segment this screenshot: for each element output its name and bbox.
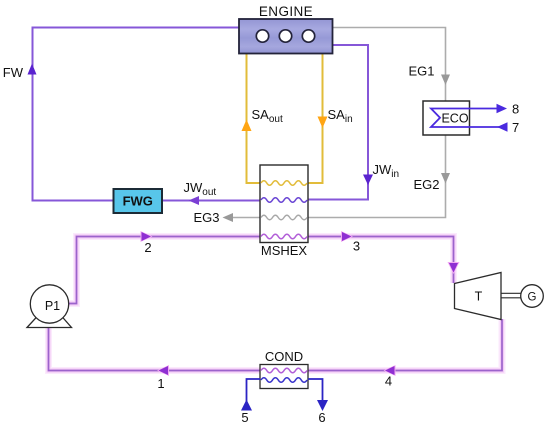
wire FW riser	[33, 28, 240, 202]
arrow SA_in (down)	[318, 117, 328, 129]
wire EG3 MSHEX outlet	[233, 217, 261, 219]
generator G	[521, 285, 544, 308]
arrow node 7 (left)	[497, 122, 508, 131]
wire cycle coil in COND	[261, 368, 307, 373]
wire cooling water outlet 6	[308, 379, 323, 401]
svg-text:T: T	[475, 290, 483, 304]
arrow SA_out (up)	[242, 120, 252, 132]
svg-text:JWout: JWout	[184, 180, 217, 198]
arrow node 1 (left)	[157, 365, 169, 376]
svg-text:SAin: SAin	[328, 107, 353, 125]
wire cycle pump to node 2 to MSHEX	[68, 237, 260, 304]
wire SA coil in MSHEX	[261, 181, 307, 186]
svg-text:COND: COND	[265, 349, 303, 364]
FWG box	[114, 189, 163, 213]
wire SA_out MSHEX to engine	[247, 54, 262, 184]
arrow node 5 (up)	[241, 400, 252, 411]
engine cylinder 3	[302, 30, 314, 42]
svg-text:ECO: ECO	[441, 112, 468, 126]
wire SA_in engine to MSHEX	[308, 54, 323, 184]
arrow node 6 (down)	[317, 400, 328, 411]
svg-text:FW: FW	[3, 65, 24, 80]
arrow node 2 (right)	[141, 231, 153, 242]
svg-text:4: 4	[385, 374, 392, 389]
arrow FW (up)	[28, 64, 37, 75]
svg-text:5: 5	[241, 410, 248, 425]
arrow EG3 (left)	[223, 213, 234, 222]
shaft	[501, 293, 521, 298]
arrow node 8 (right)	[497, 104, 508, 113]
arrow EG2 (down)	[441, 173, 450, 184]
wire ECO sigma with lines 8 and 7	[431, 109, 506, 128]
wire FWG to corner	[32, 200, 114, 202]
svg-text:MSHEX: MSHEX	[261, 243, 308, 258]
arrow EG1 (down)	[441, 75, 450, 86]
pump base	[27, 316, 72, 328]
svg-text:6: 6	[318, 410, 325, 425]
wire cycle COND to node 1 to pump	[49, 327, 261, 371]
wire JW_out MSHEX to FWG	[162, 200, 260, 202]
svg-text:ENGINE: ENGINE	[259, 4, 313, 19]
svg-text:1: 1	[157, 376, 164, 391]
svg-text:FWG: FWG	[123, 194, 153, 209]
wire EG1 engine to ECO	[333, 28, 446, 102]
engine cylinder 2	[279, 30, 291, 42]
arrow node 3 (right)	[341, 231, 353, 242]
arrow turbine inlet (down)	[448, 262, 460, 274]
wire cycle coil in MSHEX	[261, 234, 307, 239]
svg-text:P1: P1	[45, 299, 60, 313]
COND box	[260, 365, 308, 389]
engine cylinder 1	[256, 30, 268, 42]
turbine T	[455, 273, 502, 320]
wire cooling water inlet 5	[247, 379, 261, 411]
svg-text:G: G	[528, 292, 537, 304]
wire cooling coil in COND	[261, 378, 307, 383]
wire JW_in engine to MSHEX	[308, 45, 368, 200]
svg-text:JWin: JWin	[373, 162, 400, 180]
pump P1	[30, 285, 68, 323]
wire cycle turbine to node 4 to COND	[308, 319, 502, 371]
svg-text:EG3: EG3	[193, 210, 219, 225]
svg-text:EG1: EG1	[408, 64, 434, 79]
svg-text:2: 2	[144, 240, 151, 255]
svg-text:SAout: SAout	[252, 107, 283, 125]
wire EG coil in MSHEX	[261, 215, 307, 220]
arrow JW_out (left)	[189, 196, 200, 205]
svg-text:3: 3	[353, 239, 360, 254]
wire JW coil in MSHEX	[261, 198, 307, 203]
arrow JW_in (down)	[363, 175, 373, 186]
engine body	[239, 19, 333, 54]
ECO box	[423, 101, 470, 135]
svg-text:7: 7	[512, 120, 519, 135]
wire EG2 ECO to MSHEX	[308, 135, 446, 218]
svg-text:EG2: EG2	[413, 177, 439, 192]
arrow node 4 (left)	[384, 365, 396, 376]
wire cycle MSHEX to node 3 to turbine	[308, 237, 454, 284]
svg-text:8: 8	[512, 102, 519, 117]
MSHEX box	[260, 165, 308, 243]
